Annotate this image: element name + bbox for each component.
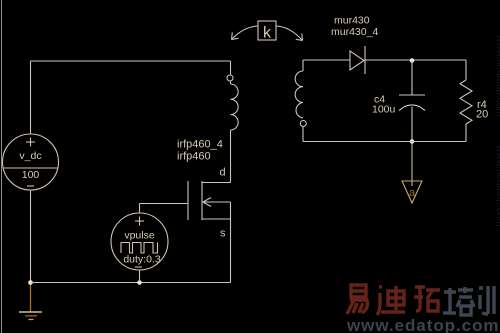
inductor L2 transformer secondary bbox=[295, 60, 306, 142]
inductor L1 transformer primary bbox=[227, 61, 238, 130]
wire top rail primary loop bbox=[31, 61, 231, 134]
svg-text:vpulse: vpulse bbox=[124, 230, 155, 242]
svg-text:100: 100 bbox=[22, 169, 40, 181]
ground a node symbol bbox=[402, 142, 422, 204]
node junction dot cap bottom bbox=[410, 139, 415, 144]
watermark logo text pei xun slate bbox=[443, 286, 494, 315]
node junction dot vpulse bottom bbox=[137, 280, 142, 285]
wire diode to resistor top bbox=[365, 59, 466, 61]
svg-text:s: s bbox=[220, 228, 226, 240]
resistor R4 20 bbox=[460, 60, 472, 142]
ground 0 earth symbol bbox=[19, 283, 42, 320]
svg-text:k: k bbox=[263, 25, 272, 42]
svg-text:v_dc: v_dc bbox=[19, 150, 41, 162]
wire mosfet source to rail bbox=[230, 202, 232, 283]
wire gate bbox=[140, 203, 189, 205]
svg-text:a: a bbox=[409, 187, 416, 199]
watermark logo text yi di tuo maroon bbox=[347, 285, 440, 315]
svg-text:irfp460: irfp460 bbox=[177, 151, 211, 163]
transistor M1 irfp460 NMOS bbox=[188, 181, 231, 220]
watermark vertical right edge bbox=[494, 34, 500, 227]
diode D1 mur430 bbox=[350, 46, 365, 74]
svg-text:www.edatop.com: www.edatop.com bbox=[346, 316, 499, 333]
node junction dot left rail bbox=[28, 280, 33, 285]
wire secondary top to diode bbox=[303, 59, 350, 61]
wire left vertical below source bbox=[30, 190, 32, 283]
svg-text:d: d bbox=[220, 167, 226, 179]
svg-text:irfp460_4: irfp460_4 bbox=[177, 139, 223, 151]
capacitor C4 100u bbox=[399, 61, 425, 142]
svg-text:www.hedatop.com: www.hedatop.com bbox=[494, 34, 500, 117]
voltage source V1 v_dc 100 bbox=[3, 134, 59, 190]
svg-text:mur430_4: mur430_4 bbox=[331, 26, 378, 38]
svg-text:20: 20 bbox=[476, 109, 488, 121]
pulse source V2 vpulse duty:0.3 bbox=[111, 204, 168, 283]
svg-text:duty:0.3: duty:0.3 bbox=[123, 254, 161, 266]
wire output bottom rail bbox=[303, 141, 466, 143]
svg-text:mur430: mur430 bbox=[334, 15, 370, 27]
wire mosfet drain to primary coil bbox=[230, 130, 232, 183]
wire bottom rail bbox=[31, 282, 231, 284]
node junction dot cap top bbox=[410, 58, 415, 63]
svg-text:www.hedatop.com: www.hedatop.com bbox=[494, 144, 500, 227]
svg-text:100u: 100u bbox=[372, 104, 396, 116]
coupling K1 k symbol bbox=[232, 21, 303, 41]
